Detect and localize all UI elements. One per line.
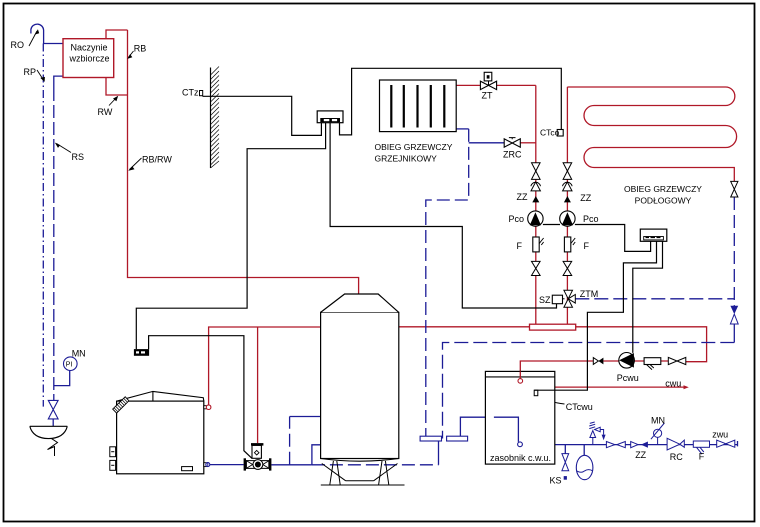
wire CTz sensor to controller pin1 xyxy=(203,96,322,135)
svg-text:cwu: cwu xyxy=(665,379,681,389)
svg-text:PI: PI xyxy=(66,362,73,369)
wire floor return horizontal dashed xyxy=(443,343,735,439)
sensor CTcwu xyxy=(534,390,538,396)
wire manifold right to Pcwu loop xyxy=(576,327,707,362)
svg-text:MN: MN xyxy=(72,349,86,359)
wire RB pipe from expansion vessel top to riser xyxy=(106,30,128,39)
svg-text:Pcwu: Pcwu xyxy=(617,373,639,383)
manifold rozdzielacz xyxy=(530,324,576,330)
valve RC pressure reducer xyxy=(667,438,680,450)
svg-text:OBIEG GRZEWCZY: OBIEG GRZEWCZY xyxy=(375,142,453,152)
svg-text:F: F xyxy=(584,241,590,251)
filter F Pcwu xyxy=(644,358,661,365)
svg-text:zasobnik c.w.u.: zasobnik c.w.u. xyxy=(490,453,551,463)
boiler outlet stub red xyxy=(204,406,207,409)
node coil outlet circle xyxy=(518,442,523,447)
filter F right xyxy=(564,237,570,252)
wire controller pin4 to CTco sensor xyxy=(340,68,562,135)
wire Pco pump bus to controller2 xyxy=(543,225,651,252)
node coil inlet circle xyxy=(518,379,523,384)
valve ZZ left bowtie xyxy=(532,163,541,180)
wire red drop to boiler pump xyxy=(257,327,259,443)
wire RW pipe from expansion vessel bottom to riser xyxy=(106,78,128,96)
svg-text:ZRC: ZRC xyxy=(503,150,522,160)
wire buffer tank to manifold supply xyxy=(399,326,530,328)
boiler chimney hatched xyxy=(113,397,129,413)
wire coil return inside zasobnik xyxy=(494,417,519,442)
valve zwu inlet xyxy=(717,440,735,447)
gauge MN manometer xyxy=(657,437,659,444)
wire controller pin3 to SZ actuator xyxy=(330,123,556,308)
pump Pco left xyxy=(528,211,543,226)
boiler nameplate xyxy=(182,467,193,471)
wire ZTM mixing dashed line xyxy=(575,298,734,300)
wire coil supply inside zasobnik xyxy=(519,371,521,378)
svg-text:MN: MN xyxy=(651,416,665,426)
node RP leader xyxy=(37,70,44,80)
pump boiler circulation group xyxy=(244,458,246,470)
node RS leader xyxy=(57,144,72,153)
wire Pcwu suction from tank coil xyxy=(520,361,668,379)
valve check Pcwu xyxy=(593,358,598,365)
node cwu arrow xyxy=(684,385,689,389)
boiler return stub blue xyxy=(204,463,207,467)
node RB/RW leader xyxy=(130,158,142,170)
node break symbol below funnel xyxy=(48,439,58,456)
node filled triangle left xyxy=(532,196,539,202)
valve ZTM four-way xyxy=(564,290,575,307)
svg-text:ZZ: ZZ xyxy=(580,193,591,203)
wire controller2 to CTcwu sensor xyxy=(534,241,656,390)
pump Pco right xyxy=(560,211,575,226)
funnel drain xyxy=(30,426,68,438)
svg-text:F: F xyxy=(699,452,705,462)
valve bowtie left lower xyxy=(532,261,541,275)
svg-text:RO: RO xyxy=(11,40,25,50)
wire RS below valve to funnel xyxy=(52,419,54,426)
svg-text:ZZ: ZZ xyxy=(517,192,528,202)
filter F left xyxy=(533,237,539,252)
buffer tank legs xyxy=(322,461,398,485)
wire boiler supply riser to buffer tank xyxy=(209,327,321,405)
return manifold bar xyxy=(420,436,441,441)
filter F zasobnik xyxy=(693,441,709,447)
valve ZZ union xyxy=(606,442,625,448)
boiler body xyxy=(117,401,204,474)
wire ZRC branch xyxy=(469,142,505,144)
expansion vessel Naczynie wzbiorcze xyxy=(63,39,114,78)
wire drain valve stem xyxy=(564,445,566,454)
node CTcwu leader xyxy=(541,398,565,404)
wire KS vessel stem xyxy=(583,445,585,456)
node RO leader xyxy=(29,31,37,46)
wire RB/RW main red riser xyxy=(128,30,359,294)
svg-text:SZ: SZ xyxy=(539,295,551,305)
valve drain zasobnik xyxy=(562,454,569,471)
svg-text:CTz: CTz xyxy=(182,88,199,98)
svg-text:RB/RW: RB/RW xyxy=(142,155,172,165)
svg-text:RP: RP xyxy=(24,67,37,77)
node RW leader xyxy=(109,97,117,106)
svg-text:F: F xyxy=(517,241,523,251)
svg-text:wzbiorcze: wzbiorcze xyxy=(69,54,110,64)
wire floor heating serpentine xyxy=(567,87,736,324)
wire return manifold to bus drop xyxy=(438,441,440,465)
wire buffer tank port 1 xyxy=(289,417,291,465)
wall with hatching xyxy=(210,68,212,169)
svg-text:zwu: zwu xyxy=(712,430,728,440)
valve check left xyxy=(531,182,540,191)
controller U2 xyxy=(640,229,667,241)
valve bowtie Pcwu xyxy=(668,357,686,364)
valve bowtie right lower xyxy=(563,261,572,275)
valve safety with spring xyxy=(590,431,596,445)
svg-text:ZZ: ZZ xyxy=(635,450,646,460)
svg-text:PODŁOGOWY: PODŁOGOWY xyxy=(635,196,692,206)
node filled triangle right xyxy=(564,196,571,202)
radiator xyxy=(380,80,457,132)
valve ZZ right bowtie xyxy=(563,163,572,180)
svg-text:CTco: CTco xyxy=(540,128,560,138)
valve drain RS xyxy=(48,400,58,419)
wire RO vent hook xyxy=(31,24,63,43)
wire pump outlet bus under buffer tank xyxy=(271,464,312,466)
wire ZRC to riser xyxy=(520,142,536,144)
wire radiator return xyxy=(456,128,469,130)
svg-text:Pco: Pco xyxy=(583,214,599,224)
valve ZRC xyxy=(504,139,520,147)
buffer tank body xyxy=(321,312,399,458)
svg-text:KS: KS xyxy=(550,476,562,486)
wire RP overflow dash-dot xyxy=(42,44,44,407)
valve ZT with actuator xyxy=(480,81,496,89)
svg-text:Naczynie: Naczynie xyxy=(71,43,108,53)
actuator SZ xyxy=(563,298,565,300)
wire floor return drop xyxy=(733,197,735,306)
vessel KS expansion xyxy=(576,455,593,479)
valve check floor return xyxy=(731,181,738,197)
svg-text:GRZEJNIKOWY: GRZEJNIKOWY xyxy=(375,154,438,164)
wire controller pin2 to boiler thermostat xyxy=(136,123,325,349)
controller U1 xyxy=(317,111,343,123)
pump Pcwu xyxy=(619,353,635,369)
wire cwu outlet xyxy=(555,386,684,388)
thermostat TRS box xyxy=(134,349,149,356)
wire CTcwu sensor lead inside zasobnik xyxy=(534,389,555,391)
wire controller2 to Pcwu pump xyxy=(633,241,663,353)
node RB leader xyxy=(128,51,133,58)
svg-text:RB: RB xyxy=(134,44,147,54)
valve check right xyxy=(563,182,572,191)
svg-text:CTcwu: CTcwu xyxy=(566,402,593,412)
wire boiler return to pump xyxy=(210,464,244,466)
wire radiator supply through ZT xyxy=(456,84,480,86)
wire coil return from zasobnik xyxy=(460,417,518,442)
boiler doors xyxy=(110,447,116,457)
svg-text:RW: RW xyxy=(98,107,113,117)
gauge PI manometer xyxy=(64,357,78,371)
sensor CTz xyxy=(200,91,203,96)
ground line under buffer tank xyxy=(321,484,405,486)
wire supply drop to left Pco branch xyxy=(535,85,537,324)
wire RS signal pipe xyxy=(54,76,63,88)
wire buffer tank port 2 xyxy=(312,445,321,465)
boiler lid xyxy=(117,391,204,401)
svg-text:ZT: ZT xyxy=(482,91,493,101)
svg-text:ZTM: ZTM xyxy=(580,289,599,299)
sensor CTco xyxy=(557,130,563,137)
svg-text:Pco: Pco xyxy=(509,214,525,224)
svg-text:OBIEG GRZEWCZY: OBIEG GRZEWCZY xyxy=(624,184,702,194)
valve check zasobnik xyxy=(631,442,638,448)
tank zasobnik cwu xyxy=(485,371,554,464)
wire MN gauge branch xyxy=(54,371,70,386)
svg-text:RC: RC xyxy=(670,452,683,462)
wire zasobnik bottom cold water line xyxy=(555,441,738,446)
svg-text:RS: RS xyxy=(72,152,85,162)
wire boiler thermostat to boiler pump motor xyxy=(149,336,252,459)
